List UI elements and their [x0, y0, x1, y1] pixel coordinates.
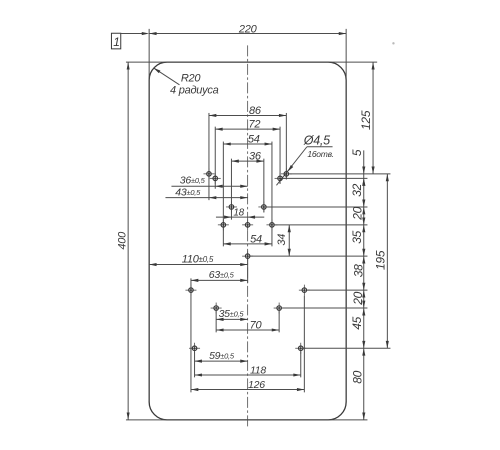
svg-text:36±0,5: 36±0,5: [180, 175, 206, 187]
svg-text:36: 36: [249, 151, 262, 163]
svg-text:400: 400: [116, 231, 128, 250]
svg-text:80: 80: [351, 370, 365, 383]
svg-text:45: 45: [350, 316, 364, 329]
svg-text:195: 195: [374, 250, 388, 270]
svg-text:20: 20: [350, 206, 364, 220]
svg-text:20: 20: [351, 291, 365, 305]
svg-text:1: 1: [113, 35, 119, 49]
svg-text:118: 118: [250, 365, 266, 377]
svg-text:72: 72: [248, 119, 260, 131]
svg-text:32: 32: [350, 183, 364, 196]
svg-text:35: 35: [350, 230, 364, 243]
svg-text:63±0,5: 63±0,5: [209, 269, 235, 281]
svg-text:16отв.: 16отв.: [307, 149, 334, 159]
svg-text:38: 38: [351, 264, 365, 277]
svg-text:126: 126: [248, 379, 265, 391]
svg-text:54: 54: [250, 233, 262, 245]
svg-text:35±0,5: 35±0,5: [219, 308, 245, 320]
svg-text:43±0,5: 43±0,5: [175, 186, 201, 198]
svg-text:125: 125: [359, 110, 373, 130]
svg-text:86: 86: [249, 105, 262, 117]
svg-text:34: 34: [276, 234, 288, 246]
svg-text:18: 18: [233, 208, 244, 219]
svg-text:4 радиуса: 4 радиуса: [170, 85, 219, 97]
svg-text:Ø4,5: Ø4,5: [303, 134, 330, 148]
svg-text:5: 5: [350, 149, 364, 156]
svg-text:220: 220: [238, 23, 258, 35]
svg-text:54: 54: [248, 134, 260, 146]
svg-text:R20: R20: [181, 72, 202, 84]
svg-text:110±0,5: 110±0,5: [182, 254, 214, 266]
svg-text:70: 70: [250, 320, 263, 332]
svg-text:59±0,5: 59±0,5: [209, 350, 235, 362]
